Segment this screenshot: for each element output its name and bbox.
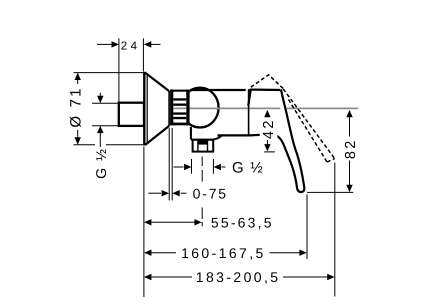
- dimension diameter 71: [74, 73, 147, 145]
- arrow G12 outlet right: [214, 164, 221, 170]
- arrow 0-75 right: [172, 190, 179, 196]
- bottom extension lines: [144, 147, 335, 298]
- svg-text:G ½: G ½: [94, 148, 110, 179]
- dimension arrowheads: [75, 41, 353, 280]
- svg-text:Ø 71: Ø 71: [67, 86, 84, 127]
- outlet nut: [191, 140, 213, 152]
- dimension 160-167,5: [146, 252, 305, 254]
- arrow 82 bottom: [346, 185, 352, 192]
- body right edge: [248, 89, 250, 134]
- outlet top-right chamfer: [213, 135, 222, 139]
- arrow dia71 top: [75, 73, 81, 80]
- arrow 82 top: [346, 110, 352, 117]
- dimension 82: [307, 112, 353, 193]
- dimension 183-200,5: [146, 276, 333, 278]
- arrow 24 left: [112, 41, 119, 47]
- knurled ring: [170, 90, 190, 126]
- svg-text:42: 42: [261, 118, 277, 139]
- arrow G12 pipe bottom: [97, 126, 103, 133]
- handle base trapezoid: [248, 90, 280, 106]
- arrow 0-75 left: [162, 190, 169, 196]
- arrow G12 pipe top: [97, 96, 103, 103]
- svg-text:24: 24: [121, 40, 141, 52]
- svg-text:82: 82: [343, 138, 359, 159]
- arrow 160-167,5 left: [144, 250, 151, 256]
- dashed handle raised position: [251, 75, 335, 162]
- arrow dia71 bottom: [75, 137, 81, 144]
- cap seam notch: [248, 90, 251, 106]
- arrow 42 bottom: [264, 144, 270, 151]
- body top line: [190, 89, 246, 91]
- svg-text:G ½: G ½: [232, 159, 264, 176]
- svg-text:55-63,5: 55-63,5: [211, 215, 274, 231]
- arrow 55-63,5 right: [194, 219, 201, 225]
- outlet stub left edge: [190, 127, 192, 140]
- escutcheon cone: [144, 72, 169, 145]
- lever handle with body bottom outline: [218, 90, 305, 192]
- arrow 55-63,5 left: [144, 219, 151, 225]
- dimension 42: [264, 112, 275, 152]
- dimension 24: [97, 38, 161, 102]
- supply pipe: [119, 103, 144, 126]
- arrow 183-200,5 right: [327, 274, 334, 280]
- svg-text:0-75: 0-75: [193, 186, 228, 202]
- dimension G1/2 left (pipe): [92, 93, 118, 147]
- arrow 160-167,5 right: [299, 250, 306, 256]
- arrow G12 outlet left: [184, 164, 191, 170]
- arrow 42 top: [264, 110, 270, 117]
- dimension 55-63,5: [146, 221, 200, 223]
- centerline: [170, 107, 280, 109]
- dimension 0-75: [148, 128, 186, 201]
- arrow 183-200,5 left: [144, 274, 151, 280]
- dimension G1/2 outlet: [174, 159, 226, 174]
- svg-text:183-200,5: 183-200,5: [196, 269, 281, 285]
- outlet centerline dashes: [201, 157, 203, 227]
- svg-text:160-167,5: 160-167,5: [181, 245, 266, 261]
- arrow 24 right: [144, 41, 151, 47]
- cartridge circle: [181, 88, 218, 128]
